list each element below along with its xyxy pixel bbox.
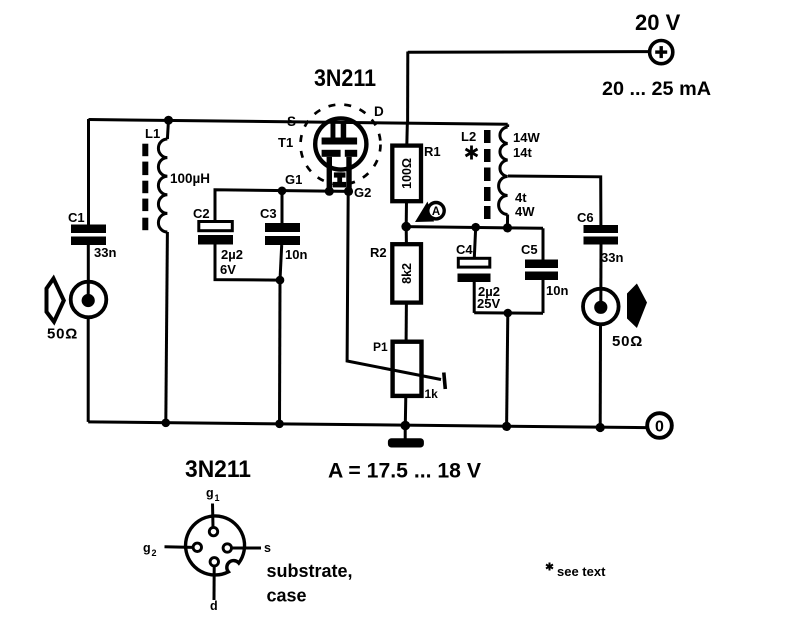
capacitor C1 <box>71 225 106 246</box>
inductor L2 (tapped coil) <box>499 124 508 228</box>
wire input connector to bottom rail <box>87 318 90 422</box>
wire C6 to output connector <box>599 245 602 308</box>
svg-text:D: D <box>374 104 384 119</box>
svg-text:C1: C1 <box>68 210 85 225</box>
wire top rail (S-D supply rail) <box>89 120 508 125</box>
power terminal +20V <box>650 41 673 64</box>
node A marker <box>415 202 444 223</box>
svg-text:10n: 10n <box>285 247 307 262</box>
svg-text:14W: 14W <box>513 130 540 145</box>
svg-text:33n: 33n <box>601 250 623 265</box>
junction branch bottom rail <box>502 422 511 431</box>
svg-text:T1: T1 <box>278 135 293 150</box>
output arrow symbol <box>627 284 647 329</box>
svg-text:G2: G2 <box>354 185 371 200</box>
pinout pin d <box>210 558 218 600</box>
svg-text:20 V: 20 V <box>635 10 681 35</box>
footnote asterisk see text <box>546 563 606 580</box>
svg-text:C4: C4 <box>456 242 473 257</box>
svg-text:1: 1 <box>215 493 220 503</box>
transistor T1 3N211 (dual-gate MOSFET) <box>315 118 366 191</box>
svg-text:C2: C2 <box>193 206 210 221</box>
svg-text:33n: 33n <box>94 245 116 260</box>
junction C3 top (G1 rail) <box>278 187 287 196</box>
svg-text:R2: R2 <box>370 245 387 260</box>
wire supply horizontal to +20V terminal <box>408 50 648 54</box>
junction node A <box>401 222 411 232</box>
wire output connector to bottom rail <box>599 325 602 428</box>
junction C4 top on node A wire <box>471 223 480 232</box>
wire C2 bottom to C3 junction <box>215 245 280 281</box>
svg-text:C5: C5 <box>521 242 538 257</box>
asterisk (L2 see text) <box>466 146 478 160</box>
svg-text:C6: C6 <box>577 210 594 225</box>
inductor L1 <box>158 120 168 423</box>
svg-text:4t: 4t <box>515 190 527 205</box>
pin label g1 <box>206 486 220 503</box>
junction G1 lead on rail <box>325 187 334 196</box>
terminal 0 (ground reference) <box>647 413 672 438</box>
capacitor C2 (electrolytic) <box>198 222 233 245</box>
output connector 50 ohm <box>583 289 619 325</box>
svg-text:14t: 14t <box>513 145 532 160</box>
junction G2 lead on rail <box>344 187 353 196</box>
svg-text:L1: L1 <box>145 126 160 141</box>
input connector 50 ohm <box>71 282 107 318</box>
svg-text:S: S <box>287 114 296 129</box>
svg-text:2µ2: 2µ2 <box>221 247 243 262</box>
ground symbol <box>388 426 424 448</box>
pinout package (TO-72 bottom view with notch) <box>186 516 245 575</box>
junction L1 bottom rail <box>162 419 171 428</box>
svg-text:3N211: 3N211 <box>185 456 251 483</box>
pin label g2 <box>143 541 157 558</box>
junction L1 top rail <box>164 116 173 125</box>
wire left branch vertical (top rail to C1) <box>87 119 90 225</box>
pinout pin g2 <box>165 543 202 551</box>
svg-text:20 ... 25 mA: 20 ... 25 mA <box>602 78 711 100</box>
svg-text:50Ω: 50Ω <box>612 333 643 350</box>
capacitor C6 <box>584 225 619 245</box>
svg-text:A = 17.5 ... 18 V: A = 17.5 ... 18 V <box>328 460 481 483</box>
wire C1 to input connector <box>87 245 90 300</box>
svg-text:100µH: 100µH <box>170 171 210 186</box>
junction P1 bottom rail <box>401 421 411 431</box>
label substrate, case <box>267 561 353 606</box>
capacitor C3 <box>265 223 300 245</box>
svg-text:P1: P1 <box>373 340 388 354</box>
junction L2 bottom on node A wire <box>503 223 512 232</box>
inductor L1 core (dashed bar) <box>142 144 148 231</box>
svg-text:3N211: 3N211 <box>314 65 376 92</box>
resistor R2 <box>392 227 421 342</box>
transistor T1 case shield (dashed circle) <box>301 105 381 185</box>
junction C4C5 bottom <box>504 309 513 318</box>
svg-text:R1: R1 <box>424 144 441 159</box>
wire L2 tap to C6 <box>508 176 601 225</box>
svg-text:6V: 6V <box>220 262 236 277</box>
svg-text:A: A <box>432 206 440 218</box>
capacitor C4 (electrolytic) <box>458 227 491 313</box>
svg-text:C3: C3 <box>260 206 277 221</box>
inductor L2 core (dashed bar) <box>484 130 491 219</box>
svg-text:8k2: 8k2 <box>400 263 414 284</box>
svg-text:0: 0 <box>655 419 664 436</box>
wire supply vertical drop <box>406 52 409 125</box>
svg-text:1k: 1k <box>425 387 439 401</box>
svg-text:10n: 10n <box>546 283 568 298</box>
resistor R1 <box>392 125 421 227</box>
svg-text:case: case <box>267 586 307 606</box>
svg-text:d: d <box>210 599 218 613</box>
svg-text:G1: G1 <box>285 172 302 187</box>
svg-text:2: 2 <box>152 548 157 558</box>
input arrow symbol <box>47 279 64 322</box>
svg-text:s: s <box>264 541 271 555</box>
wire C4-C5 bottom link <box>474 311 543 314</box>
wire G1 rail (C2 corner to G2) <box>215 190 348 222</box>
pinout pin g1 <box>209 504 217 536</box>
svg-text:50Ω: 50Ω <box>47 326 78 343</box>
potentiometer P1 <box>393 342 422 426</box>
svg-text:4W: 4W <box>515 204 535 219</box>
capacitor C5 <box>525 228 558 313</box>
junction C3 bottom rail <box>275 420 284 429</box>
wire C3 vertical (G1 rail through C3 to bottom rail) <box>281 191 284 223</box>
wiper tick mark <box>444 373 446 390</box>
svg-text:25V: 25V <box>477 296 500 311</box>
wire bottom rail (0V) <box>88 422 646 428</box>
junction output bottom rail <box>596 423 605 432</box>
wire C4C5 junction to bottom rail <box>507 313 508 426</box>
svg-text:L2: L2 <box>461 129 476 144</box>
svg-text:g: g <box>143 541 151 555</box>
pinout pin s <box>223 544 261 552</box>
junction C2-C3 bottom <box>276 276 285 285</box>
svg-text:see text: see text <box>557 564 606 579</box>
wire G2 down to P1 wiper <box>347 191 441 379</box>
svg-text:substrate,: substrate, <box>267 561 353 581</box>
svg-text:g: g <box>206 486 214 500</box>
wire node A horizontal <box>406 227 543 229</box>
svg-text:100Ω: 100Ω <box>400 158 414 189</box>
